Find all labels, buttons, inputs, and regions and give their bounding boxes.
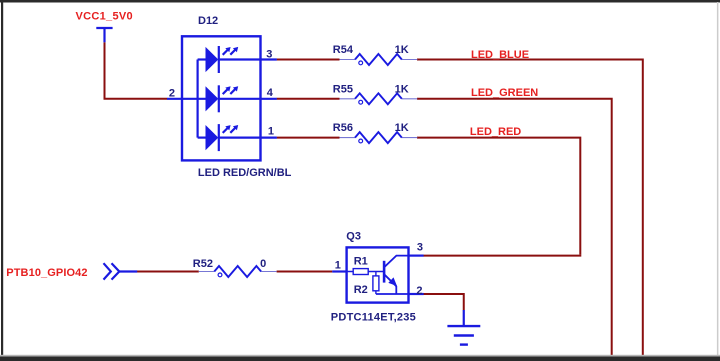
svg-text:R54: R54 (333, 44, 354, 56)
svg-text:LED RED/GRN/BL: LED RED/GRN/BL (198, 167, 292, 179)
svg-text:VCC1_5V0: VCC1_5V0 (76, 10, 133, 22)
svg-text:R2: R2 (354, 284, 368, 296)
svg-text:2: 2 (169, 87, 175, 99)
svg-text:0: 0 (260, 258, 266, 270)
svg-text:D12: D12 (198, 15, 218, 27)
svg-text:LED_RED: LED_RED (470, 126, 521, 138)
svg-text:PDTC114ET,235: PDTC114ET,235 (331, 311, 416, 323)
svg-text:1K: 1K (395, 122, 409, 134)
svg-text:1: 1 (335, 259, 341, 271)
svg-text:R56: R56 (333, 122, 353, 134)
svg-text:1K: 1K (395, 83, 409, 95)
svg-text:LED_GREEN: LED_GREEN (471, 87, 538, 99)
svg-text:Q3: Q3 (346, 231, 361, 243)
svg-text:3: 3 (266, 48, 272, 60)
svg-text:2: 2 (416, 285, 422, 297)
svg-text:1: 1 (268, 125, 274, 137)
svg-text:4: 4 (267, 87, 274, 99)
svg-text:1K: 1K (395, 44, 409, 56)
svg-text:LED_BLUE: LED_BLUE (471, 49, 529, 61)
svg-text:R1: R1 (354, 255, 368, 267)
svg-text:R52: R52 (193, 258, 213, 270)
svg-text:PTB10_GPIO42: PTB10_GPIO42 (6, 267, 87, 279)
svg-text:R55: R55 (333, 83, 353, 95)
svg-text:3: 3 (417, 241, 423, 253)
